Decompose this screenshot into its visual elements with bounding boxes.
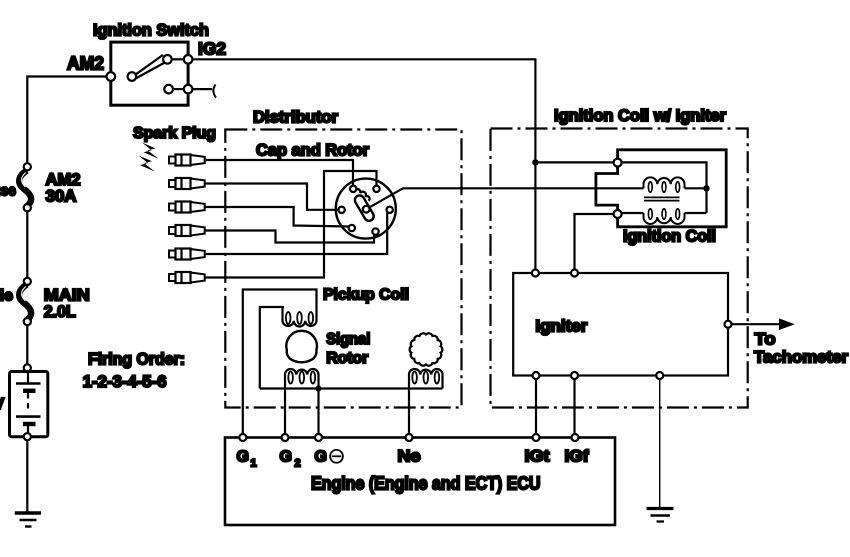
wire pickup baseline to Ne coil [260, 387, 443, 389]
ECU terminal G- [315, 434, 322, 441]
ignition coil terminal - [614, 210, 622, 218]
ECU terminal G2 [282, 434, 289, 441]
svg-text:Ignition Coil w/ Igniter: Ignition Coil w/ Igniter [554, 107, 727, 125]
fuse AM2 30A top terminal [24, 163, 31, 170]
Ne signal rotor gear [410, 333, 443, 365]
wire IGt igniter to ECU [535, 379, 537, 438]
ignition switch pivot [128, 72, 137, 81]
rotor arm [353, 194, 375, 223]
wire fuse to fusible link [26, 211, 28, 277]
wire lower terminal stub [192, 88, 212, 90]
wire fusible link to battery [26, 325, 28, 364]
svg-text:G: G [280, 449, 292, 466]
svg-text:use: use [0, 183, 16, 200]
ground battery [15, 511, 41, 514]
ECU terminal IGf [572, 434, 579, 441]
battery cell 2 short plate [23, 422, 36, 426]
cap center terminal [363, 206, 370, 213]
svg-text:2: 2 [295, 458, 301, 470]
svg-text:2.0L: 2.0L [44, 303, 76, 321]
junction node coil right [703, 185, 709, 191]
ECU box [225, 438, 615, 526]
ground igniter [647, 507, 674, 510]
svg-text:1-2-3-4-5-6: 1-2-3-4-5-6 [83, 373, 167, 391]
spark plug 4 [169, 225, 205, 236]
battery top stub [27, 372, 29, 384]
wire coil + internal [622, 162, 707, 213]
svg-text:Tachometer: Tachometer [754, 348, 848, 367]
pickup coil Ne winding [409, 369, 443, 389]
fusible link bottom terminal [24, 318, 31, 325]
fusible link MAIN body [19, 285, 31, 322]
battery box [10, 372, 48, 437]
lower stub end curl [213, 85, 216, 98]
svg-text:G: G [315, 449, 327, 466]
wire pickup inner loop [260, 307, 284, 389]
svg-text:Rotor: Rotor [326, 350, 368, 367]
ignition coil primary winding [644, 177, 685, 188]
spark plug 6 [169, 272, 205, 283]
svg-text:Igniter: Igniter [535, 318, 588, 336]
spark plug 5 [169, 249, 205, 260]
svg-text:To: To [755, 330, 776, 349]
wire G- to ECU [317, 389, 319, 438]
cap terminal bottom-right [372, 228, 378, 234]
battery cell 1 long plate [16, 382, 41, 385]
fusible link MAIN top terminal [24, 278, 31, 285]
svg-text:AM2: AM2 [67, 54, 104, 74]
ignition switch terminal AM2 [107, 72, 116, 81]
igniter terminal right (tach) [725, 321, 732, 328]
junction node on IG2 feed [532, 159, 538, 165]
cap terminal top-right [373, 186, 379, 192]
svg-text:Engine (Engine and ECT) ECU: Engine (Engine and ECT) ECU [311, 474, 541, 494]
wire IGf igniter to ECU [573, 379, 575, 438]
wire junction to coil terminal [535, 161, 613, 163]
svg-text:Pickup Coil: Pickup Coil [323, 287, 409, 304]
rotor carbon contact squiggle [354, 189, 369, 201]
svg-text:Distributor: Distributor [253, 109, 339, 127]
ignition switch contact upper [163, 55, 172, 64]
wire battery to ground [26, 440, 28, 512]
wire Ne to ECU [408, 389, 410, 438]
wire plug6 to cap terminal [205, 171, 377, 278]
cap terminal left [338, 207, 344, 213]
junction G- node [316, 386, 322, 392]
wire plug5 to cap terminal [205, 213, 388, 254]
wire plug4 to cap terminal [205, 231, 374, 243]
igniter terminal ground [656, 372, 663, 379]
ignition switch contact lower [164, 85, 173, 94]
igniter terminal top 1 [532, 270, 539, 277]
wire coil - to igniter [575, 214, 614, 270]
wire IG2 vertical to igniter [534, 162, 536, 270]
svg-text:Ignition Coil: Ignition Coil [623, 228, 716, 246]
ignition coil w/ igniter box [491, 129, 748, 408]
ignition switch SW1 box [111, 42, 188, 105]
signal rotor [286, 331, 317, 362]
ignition coil T1 case [596, 150, 726, 227]
svg-text:V: V [0, 396, 5, 413]
svg-text:IG2: IG2 [198, 39, 226, 59]
wire igniter to ground [659, 379, 661, 507]
svg-text:Firing Order:: Firing Order: [88, 351, 185, 369]
svg-text:ble: ble [0, 288, 13, 305]
spark plug 3 [169, 202, 205, 213]
wire plug3 to cap terminal [205, 207, 350, 227]
svg-text:IGt: IGt [525, 448, 551, 466]
svg-text:Ignition Switch: Ignition Switch [93, 21, 209, 40]
battery bottom terminal [24, 433, 31, 440]
svg-text:30A: 30A [46, 188, 77, 206]
wire secondary leads [622, 212, 644, 214]
battery bottom stub [27, 424, 29, 437]
spark plug 2 [169, 178, 205, 189]
ignition coil terminal + [614, 159, 622, 167]
wire G2 to ECU [284, 389, 286, 438]
wire upper contact to IG2 terminal [172, 58, 184, 60]
ignition switch terminal IG2 [184, 55, 193, 64]
svg-text:Ne: Ne [398, 448, 421, 466]
battery cell 2 long plate [16, 415, 41, 418]
svg-text:MAIN: MAIN [44, 286, 90, 305]
wire G1 from pickup loop to ECU [243, 290, 317, 438]
svg-text:1: 1 [251, 458, 257, 470]
wire lower contact [173, 88, 184, 90]
ignition switch lower right terminal [184, 85, 193, 94]
wire to tachometer with arrow [732, 323, 781, 325]
spark symbol lightning bolts [142, 143, 159, 159]
battery dashed center link [27, 393, 29, 412]
fuse AM2 30A body [19, 171, 31, 208]
distributor box [225, 130, 461, 408]
igniter U1 box [513, 273, 728, 376]
svg-text:Cap and Rotor: Cap and Rotor [256, 142, 370, 160]
wire AM2 feed to ignition switch [27, 77, 111, 167]
ignition coil core [644, 196, 680, 198]
svg-text:Spark Plug: Spark Plug [133, 125, 216, 142]
pickup coil lower winding G [285, 369, 319, 389]
igniter terminal IGf [571, 372, 578, 379]
ignition coil secondary winding [644, 213, 685, 224]
cap terminal top-left [350, 186, 356, 192]
wire plug1 to cap terminal [205, 160, 353, 186]
ECU terminal IGt [533, 434, 540, 441]
ignition switch lever [136, 55, 166, 78]
igniter terminal top 2 [571, 270, 578, 277]
wire primary right lead [685, 187, 707, 189]
distributor cap circle [336, 179, 396, 239]
svg-text:AM2: AM2 [46, 171, 81, 189]
ECU terminal Ne [406, 434, 413, 441]
battery cell 1 short plate [23, 389, 36, 393]
spark plug 1 [169, 155, 205, 166]
ECU terminal G1 [239, 434, 246, 441]
svg-text:Signal: Signal [326, 331, 370, 348]
igniter terminal IGt [533, 372, 540, 379]
wire plug2 to cap terminal [205, 184, 339, 210]
fuse AM2 30A bottom terminal [24, 204, 31, 211]
pickup coil upper winding [283, 307, 317, 327]
svg-text:G: G [237, 449, 249, 466]
svg-text:IGf: IGf [565, 448, 590, 466]
cap terminal bottom-left [349, 225, 355, 231]
battery top terminal [24, 364, 31, 371]
cap terminal right [387, 207, 393, 213]
wire cap center to ignition coil [369, 188, 643, 207]
wire IG2 to igniter assembly [192, 59, 535, 162]
